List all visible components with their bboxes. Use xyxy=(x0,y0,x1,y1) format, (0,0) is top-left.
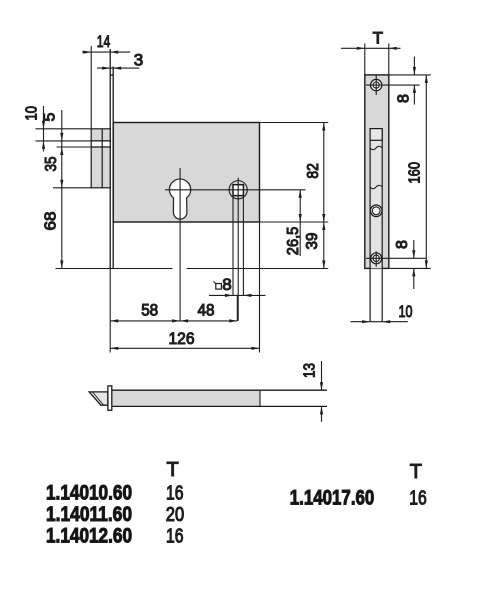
dim 3 xyxy=(97,67,139,70)
svg-text:14: 14 xyxy=(97,32,111,51)
faceplate bottom level extension xyxy=(56,268,173,270)
dim 10 (left) xyxy=(42,106,45,152)
svg-text:35: 35 xyxy=(43,156,60,171)
svg-text:1.14010.60: 1.14010.60 xyxy=(46,481,132,504)
dim 10 right xyxy=(350,320,407,323)
svg-text:1.14017.60: 1.14017.60 xyxy=(290,487,375,510)
break wave 1 xyxy=(370,146,382,149)
latch bolt side xyxy=(89,392,108,405)
dim 8 square (follower) xyxy=(209,294,265,297)
svg-text:8: 8 xyxy=(394,240,411,249)
svg-text:68: 68 xyxy=(43,211,60,230)
svg-text:126: 126 xyxy=(169,329,195,348)
cylinder ring hole xyxy=(370,205,382,217)
break wave 2 xyxy=(370,185,382,188)
svg-text:T: T xyxy=(167,459,179,481)
svg-text:16: 16 xyxy=(409,488,427,510)
svg-text:58: 58 xyxy=(141,301,158,320)
dim T xyxy=(341,44,401,75)
svg-text:160: 160 xyxy=(407,162,424,184)
faceplate side xyxy=(108,386,112,410)
top screw hole xyxy=(371,79,382,90)
dim 126 xyxy=(110,222,259,353)
svg-text:T: T xyxy=(410,461,422,483)
svg-text:13: 13 xyxy=(302,363,319,378)
body top extension xyxy=(260,122,329,124)
svg-text:1.14011.60: 1.14011.60 xyxy=(46,503,132,526)
svg-text:48: 48 xyxy=(198,301,215,320)
svg-text:16: 16 xyxy=(166,482,184,504)
follower circle xyxy=(229,181,247,199)
svg-text:39: 39 xyxy=(304,232,321,249)
follower square side extension lines xyxy=(232,196,234,296)
faceplate plate xyxy=(365,75,389,269)
svg-text:8: 8 xyxy=(396,94,413,103)
svg-text:1.14012.60: 1.14012.60 xyxy=(46,524,132,547)
svg-text:16: 16 xyxy=(166,525,184,547)
latch window xyxy=(370,129,382,141)
square symbol xyxy=(216,284,222,290)
body side bar xyxy=(112,390,260,406)
body bottom extension xyxy=(260,221,329,223)
lock body (front view) xyxy=(113,123,259,223)
svg-text:8: 8 xyxy=(222,275,231,294)
svg-text:5: 5 xyxy=(42,113,59,122)
svg-text:10: 10 xyxy=(24,106,41,121)
keyhole euro cylinder xyxy=(169,179,190,219)
svg-text:T: T xyxy=(373,28,383,47)
svg-text:3: 3 xyxy=(134,51,143,70)
tab extensions left xyxy=(36,128,92,130)
svg-text:26,5: 26,5 xyxy=(285,227,302,256)
dim 13 xyxy=(320,361,323,422)
centerline vertical cylinder xyxy=(179,168,181,321)
dim 5 / 35 / 68 shared line xyxy=(60,110,63,269)
follower square 8mm xyxy=(233,185,243,196)
dim 14 xyxy=(82,46,130,129)
centerline horizontal xyxy=(165,189,306,191)
svg-text:82: 82 xyxy=(305,163,322,179)
dim 58 / 48 xyxy=(110,295,237,322)
dim 39 xyxy=(322,222,325,269)
faceplate (front view, edge-on double line) xyxy=(110,49,113,269)
dim 82 xyxy=(322,123,325,223)
bottom screw hole xyxy=(371,253,382,264)
svg-text:10: 10 xyxy=(399,302,413,321)
dim 26,5 xyxy=(299,190,302,256)
svg-text:20: 20 xyxy=(166,504,184,526)
dim 160 xyxy=(425,75,428,269)
dim 8 bottom right xyxy=(389,240,431,289)
rear tab block xyxy=(91,129,110,188)
dim 8 top right xyxy=(389,57,431,105)
follower centerline xyxy=(237,178,239,321)
inner channel xyxy=(370,129,382,269)
